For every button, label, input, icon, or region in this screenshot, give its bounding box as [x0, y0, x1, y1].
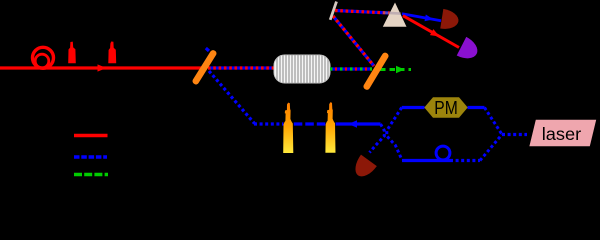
- beam: red+green+blue dotted (grating to BS2): [330, 67, 372, 70]
- diagonal beam BS2 to mirror (red+blue dotted): [333, 16, 374, 66]
- legend: blue dashed line: [74, 155, 107, 158]
- top arm dotted diagonal to Y junction: [485, 108, 503, 135]
- blue dotted diagonal BS1 down to return line: [209, 71, 255, 124]
- return line: solid segment with left arrow: [336, 122, 381, 125]
- pulse P2 on red line: [108, 42, 116, 64]
- flame pulse F2: [325, 102, 335, 152]
- arrowhead on red input line: [98, 64, 107, 71]
- beam mirror to prism (red+blue dotted): [335, 11, 390, 14]
- laser box: [529, 120, 596, 146]
- top arm: solid right segment: [468, 106, 485, 109]
- detector D3 (dark red): [350, 155, 377, 181]
- green arrowhead: [396, 66, 405, 73]
- red beam prism to detector D2: [403, 16, 459, 48]
- leak dot above BS1: [205, 47, 210, 52]
- pulse P1 on red line: [68, 42, 76, 64]
- coupler X (left, fiber pinch): [370, 108, 403, 161]
- phase modulator PM hexagon: [424, 97, 467, 117]
- detector D2 (purple): [457, 37, 482, 63]
- faint beam inside prism: [383, 11, 401, 15]
- fiber loop on input line: [33, 47, 54, 68]
- fiber loop on bottom arm: [436, 146, 450, 160]
- blue beam prism to detector D1: [402, 14, 441, 21]
- dotted line Y junction to laser: [502, 133, 527, 136]
- svg-text:PM: PM: [434, 97, 458, 118]
- detector D1 (dark red): [440, 9, 460, 31]
- wire: red signal input line: [0, 66, 202, 69]
- beam splitter BS2: [362, 51, 389, 90]
- svg-text:laser: laser: [542, 124, 582, 144]
- legend: green dashed line: [74, 173, 108, 176]
- return line: dotted segment: [254, 122, 284, 125]
- prism: [383, 3, 407, 27]
- bottom arm dotted segment: [450, 159, 480, 162]
- mirror M1: [330, 2, 336, 20]
- beam: red+blue dotted (BS1 to grating): [208, 66, 274, 69]
- blue arrowhead at D1: [425, 15, 434, 22]
- flame pulse F1: [283, 103, 293, 153]
- interferometer top arm: solid left segment: [402, 106, 425, 109]
- bottom arm dotted diagonal to Y junction: [480, 135, 502, 161]
- interferometer bottom arm: solid segment: [402, 159, 450, 162]
- blue left arrowhead: [349, 120, 358, 128]
- grating / crystal cell: [274, 55, 330, 83]
- legend: red solid line: [74, 134, 108, 137]
- return line: dashed segment between flames: [294, 122, 326, 125]
- beam splitter BS1: [191, 49, 217, 86]
- green dashed output arrow: [380, 68, 411, 71]
- red arrowhead mid-beam: [430, 29, 440, 36]
